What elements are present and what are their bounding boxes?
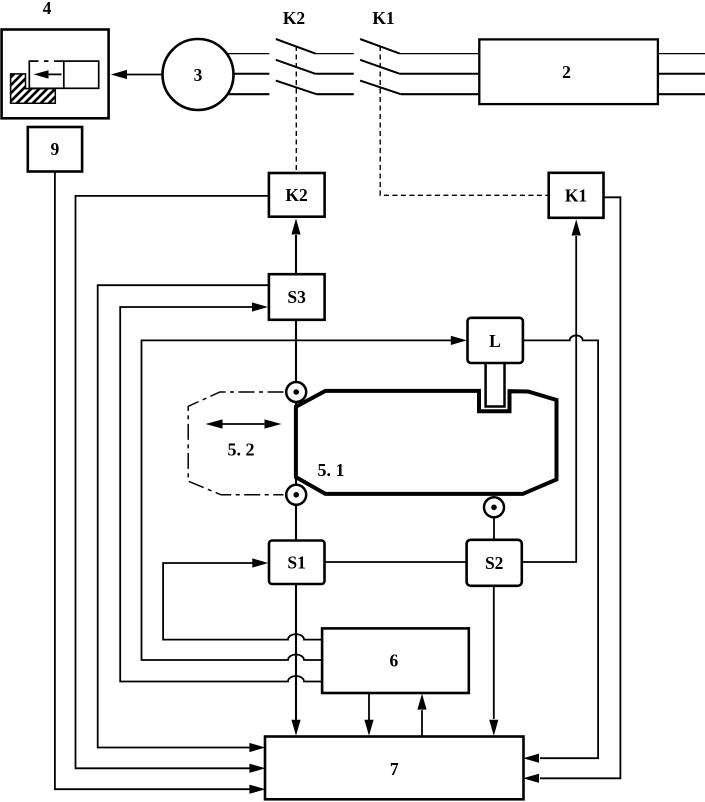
svg-text:5. 2: 5. 2 xyxy=(228,440,255,460)
dashed control link from K1 contacts down and right to coil box K1 xyxy=(380,46,548,195)
svg-text:5. 1: 5. 1 xyxy=(318,460,345,480)
switch box S1 xyxy=(269,541,325,585)
box 2 xyxy=(479,39,658,104)
wire from coil K2 left down to controller 7 (left feedback 2) xyxy=(76,196,269,768)
svg-text:S2: S2 xyxy=(485,553,503,573)
arrowhead into K2 bottom xyxy=(291,219,300,235)
wire solenoid L right down to controller 7 (with hop over K1 line) xyxy=(523,335,599,758)
switch box S2 xyxy=(467,540,522,586)
dashed gaps on piston top edge xyxy=(39,60,45,63)
arrowhead into box7 top from 6 xyxy=(364,720,373,736)
svg-text:9: 9 xyxy=(51,139,60,159)
cam plate 5.1 (thick outline) xyxy=(296,391,557,494)
wire from block 6 up into solenoid L (arrowed input) xyxy=(142,340,452,660)
wire from S3 left down to controller 7 (left feedback 3) xyxy=(98,285,269,747)
svg-text:3: 3 xyxy=(194,65,203,85)
coil box K2 xyxy=(269,173,325,217)
wire block 6 bottom down into controller 7 (arrowed) xyxy=(368,693,370,721)
wire S2 right up to coil K1 (arrowed) xyxy=(522,236,577,562)
arrowhead into box7 left 3 xyxy=(249,785,265,794)
arrowhead into S1 left xyxy=(252,558,268,567)
solenoid L plunger xyxy=(486,361,505,407)
wire from box 9 down to controller 7 (left feedback 1) xyxy=(55,172,251,790)
solenoid box L xyxy=(468,318,523,363)
arrowhead into S3 left xyxy=(252,302,268,311)
wire from controller branch up into S3 (arrowed input) xyxy=(120,307,322,682)
svg-text:4: 4 xyxy=(43,0,52,18)
arrowhead into box7 left 1 xyxy=(249,743,265,752)
roller bottom left xyxy=(286,485,306,505)
svg-text:K1: K1 xyxy=(372,8,394,28)
block 7 (controller) xyxy=(265,737,524,800)
motion arrow inside 4 xyxy=(47,73,62,75)
svg-text:6: 6 xyxy=(390,650,399,670)
arrowhead into box7 top from S1 xyxy=(291,720,300,736)
wire from block 6 up into S1 (arrowed input) xyxy=(163,563,322,640)
box 9 xyxy=(28,127,82,172)
contactor K1 blade phase 1 xyxy=(360,39,400,54)
wire phase line 3 K1 to box2 and to right edge xyxy=(401,93,705,95)
contactor K2 blade phase 1 xyxy=(276,39,316,54)
piston divider xyxy=(63,61,65,88)
arrowhead into box6 bottom from 7 xyxy=(417,694,426,710)
roller top left xyxy=(286,382,306,402)
coil box K1 xyxy=(549,173,604,218)
svg-text:K2: K2 xyxy=(285,185,307,205)
contactor K1 blade phase 2 xyxy=(360,60,400,74)
hatched support block inside 4 xyxy=(11,74,56,103)
block 6 xyxy=(322,628,469,693)
arrowhead into box7 left 2 xyxy=(249,764,265,773)
arrowhead into box7 right 2 xyxy=(523,774,539,783)
wire S2 down to controller 7 (arrowed) xyxy=(493,586,495,720)
wire S1 to S2 xyxy=(324,561,467,563)
wire phase line 2 K1 to box2 and to right edge xyxy=(400,73,705,75)
wire phase line 1 (top) motor to K2 contact xyxy=(200,53,269,55)
svg-text:7: 7 xyxy=(390,759,399,779)
svg-text:L: L xyxy=(489,331,501,351)
svg-text:2: 2 xyxy=(562,62,571,82)
arrowhead into box7 right 1 xyxy=(523,754,539,763)
wire controller 7 top up into block 6 (arrowed) xyxy=(421,710,423,736)
wire central vertical S3 down through rollers to S1 xyxy=(295,320,297,541)
wire phase line 1 K1 to box2 and to right edge xyxy=(400,53,705,55)
wire phase line 2 between K2 and K1 xyxy=(315,73,353,75)
wire phase line 1 between K2 and K1 xyxy=(315,53,353,55)
dashed ghost profile 5.2 (cam in other position) xyxy=(188,392,283,495)
wire phase line 3 between K2 and K1 xyxy=(317,93,354,95)
svg-text:S3: S3 xyxy=(287,287,306,307)
double-headed motion arrow for 5.2 xyxy=(212,423,276,425)
piston / slider rectangle inside 4 xyxy=(29,61,98,88)
wire roller to S2 top xyxy=(493,512,495,540)
contactor K1 blade phase 3 xyxy=(360,81,401,95)
motor circle 3 xyxy=(163,39,234,110)
dashed control link from K2 contacts down to coil box K2 xyxy=(295,46,297,172)
box 4 (mechanism enclosure) xyxy=(2,30,109,119)
contactor K2 blade phase 3 xyxy=(276,81,317,95)
arrowhead into box7 top from S2 xyxy=(489,720,498,736)
svg-text:S1: S1 xyxy=(287,552,305,572)
wire central vertical S1 down to controller 7 (arrowed) xyxy=(295,584,297,721)
wire phase line 2 (middle) motor to K2 contact xyxy=(200,73,269,75)
wire phase line 3 (bottom) motor to K2 contact xyxy=(200,93,269,95)
switch box S3 xyxy=(269,274,325,320)
wire coil K1 right down to controller 7 xyxy=(540,197,620,778)
svg-text:K1: K1 xyxy=(565,185,587,205)
arrowhead into K1 bottom xyxy=(572,220,581,236)
arrowhead into box 4 xyxy=(111,70,127,79)
roller bottom right (above S2) xyxy=(484,497,504,517)
wire S3 up to coil K2 (arrowed) xyxy=(295,235,297,275)
arrowhead into L left xyxy=(451,336,467,345)
contactor K2 blade phase 2 xyxy=(276,60,316,74)
svg-text:K2: K2 xyxy=(283,8,305,28)
wire motor 3 to mechanism 4 xyxy=(120,74,163,76)
